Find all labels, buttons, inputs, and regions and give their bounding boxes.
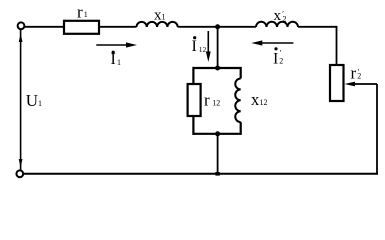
svg-text:1: 1 xyxy=(38,99,42,108)
svg-text:r: r xyxy=(77,3,83,22)
wire: x'2 to top-right corner xyxy=(298,26,337,28)
wire left (U1) xyxy=(20,30,22,171)
wire: loop bottom bar xyxy=(193,133,241,135)
node: loop bottom xyxy=(215,131,220,136)
svg-text:1: 1 xyxy=(84,10,88,19)
wiper arrow into r'2 xyxy=(352,83,377,85)
node: bottom wire junction xyxy=(215,172,219,176)
svg-text:I: I xyxy=(273,51,278,68)
wire: x1 to x'2 across junction xyxy=(178,26,256,28)
svg-text:12: 12 xyxy=(260,98,268,107)
arrowhead U1 up xyxy=(19,34,23,43)
svg-text:2: 2 xyxy=(283,15,287,24)
inductor x'2 xyxy=(256,22,298,27)
wire bottom xyxy=(24,173,378,175)
wire top: left terminal to r1 xyxy=(24,26,64,28)
resistor r12 xyxy=(188,84,201,116)
svg-text:r: r xyxy=(351,64,357,83)
wire: loop top bar xyxy=(193,67,241,69)
resistor r'2 (rheostat box) xyxy=(330,65,344,101)
terminal top-left xyxy=(18,22,25,29)
wire: r1 to x1 xyxy=(99,26,137,28)
svg-text:r: r xyxy=(204,91,210,110)
wire: loop right upper leg xyxy=(240,67,242,79)
wire: loop to bottom wire xyxy=(217,134,219,174)
resistor r1 xyxy=(64,21,99,34)
svg-text:I: I xyxy=(192,38,197,55)
wire: loop left lower leg xyxy=(192,116,194,135)
arrow I12 xyxy=(207,31,209,55)
terminal bottom-left xyxy=(16,170,23,177)
svg-text:2: 2 xyxy=(279,57,283,66)
wire: right drop to r'2 xyxy=(336,26,338,65)
node: junction top xyxy=(215,24,220,29)
wire: right side down xyxy=(376,84,378,175)
svg-text:1: 1 xyxy=(162,13,166,22)
svg-text:1: 1 xyxy=(117,58,121,67)
wire: loop right lower leg xyxy=(240,122,242,135)
arrowhead U1 down xyxy=(19,159,23,168)
arrow I1 xyxy=(96,44,130,46)
svg-text:U: U xyxy=(26,91,38,110)
wire: loop left upper leg xyxy=(192,67,194,84)
svg-text:12: 12 xyxy=(199,45,207,54)
inductor x12 xyxy=(235,79,240,123)
svg-text:x: x xyxy=(274,8,282,24)
svg-text:2: 2 xyxy=(357,72,361,81)
arrow I'2 xyxy=(258,42,293,44)
wire: junction down to magnetizing loop xyxy=(217,27,219,68)
svg-text:12: 12 xyxy=(212,99,220,108)
node: loop top xyxy=(215,66,220,71)
inductor x1 xyxy=(137,22,178,27)
